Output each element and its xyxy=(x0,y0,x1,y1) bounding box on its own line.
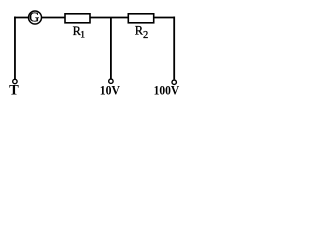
terminal T (binding post circle) xyxy=(13,79,17,83)
wire: middle vertical (junction between R1 and R2 down to 10V terminal) xyxy=(110,17,112,78)
svg-text:2: 2 xyxy=(143,30,148,41)
wire: right vertical (corner after R2 down to 100V terminal) xyxy=(173,17,175,80)
terminal 100V (binding post circle) xyxy=(172,80,176,84)
galvanometer G xyxy=(29,11,42,26)
svg-text:10V: 10V xyxy=(100,84,120,98)
wire: top horizontal bus xyxy=(14,17,174,19)
wire: left vertical (corner to terminal T) xyxy=(14,17,16,80)
svg-text:1: 1 xyxy=(80,30,85,40)
resistor R2 xyxy=(128,14,153,41)
svg-text:T: T xyxy=(9,83,19,99)
resistor R1 xyxy=(65,14,90,41)
svg-text:G: G xyxy=(29,11,39,26)
svg-text:100V: 100V xyxy=(154,84,180,98)
terminal 10V (binding post circle) xyxy=(109,79,113,83)
